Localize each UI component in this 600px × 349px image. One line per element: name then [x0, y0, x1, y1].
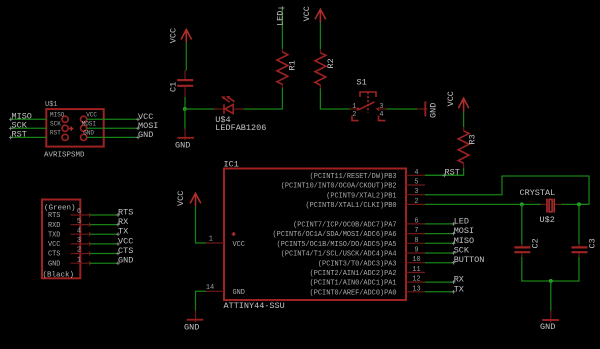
ground symbol right of S1 (rotated) [417, 101, 438, 118]
wire net GND [87, 130, 154, 140]
svg-text:13: 13 [412, 285, 420, 293]
svg-text:TX: TX [118, 227, 128, 237]
wire net RST at pin 4 [425, 174, 464, 176]
svg-text:1: 1 [77, 256, 81, 264]
wire left junction down to C2 [521, 204, 523, 244]
svg-text:U$1: U$1 [45, 101, 57, 109]
supply VCC symbol above R2 [302, 6, 326, 22]
IC1 pin 3 PB1 [326, 188, 425, 200]
svg-text:C2: C2 [530, 238, 540, 248]
svg-text:BUTTON: BUTTON [454, 255, 485, 265]
IC U1 (IC1) ATTINY44-SSU body [224, 159, 407, 311]
IC1 pin 12 PA1 [310, 276, 425, 288]
svg-text:VCC: VCC [233, 241, 245, 249]
svg-text:(PCINT2/AIN1/ADC2)PA2: (PCINT2/AIN1/ADC2)PA2 [310, 270, 397, 278]
IC1 pin 10 PA3 [318, 256, 425, 268]
wire net VCC [87, 112, 154, 122]
IC1 pin 1 VCC [206, 235, 245, 249]
U$1 pad VCC [81, 116, 87, 122]
svg-text:2: 2 [352, 111, 356, 119]
wire net RX at pin 12 [425, 275, 464, 285]
junction bottom rail [549, 279, 553, 283]
svg-text:(PCINT6/OC1A/SDA/MOSI/ADC6)PA6: (PCINT6/OC1A/SDA/MOSI/ADC6)PA6 [272, 231, 396, 239]
FTDI pin 3 VCC [48, 236, 133, 249]
svg-text:VCC: VCC [86, 112, 97, 119]
wire VCC to IC1 pin 1 [196, 206, 207, 243]
svg-text:8: 8 [414, 237, 418, 245]
FTDI pin 2 CTS [48, 246, 133, 259]
svg-text:VCC: VCC [446, 91, 456, 106]
svg-text:CTS: CTS [48, 251, 60, 259]
svg-text:(PCINT10/INT0/OC0A/CKOUT)PB2: (PCINT10/INT0/OC0A/CKOUT)PB2 [281, 183, 397, 191]
IC1 pin 11 PA2 [310, 266, 425, 278]
svg-text:4: 4 [379, 111, 383, 119]
svg-text:RTS: RTS [48, 212, 60, 220]
wire R3 to RST net [425, 168, 464, 178]
svg-text:MOSI: MOSI [454, 226, 474, 236]
svg-text:RX: RX [454, 275, 464, 285]
wire net BUTTON at pin 10 [425, 255, 484, 265]
svg-text:LED: LED [454, 216, 469, 226]
wire net LED at pin 6 [425, 216, 469, 226]
svg-text:LED: LED [275, 11, 285, 26]
svg-text:CTS: CTS [118, 246, 133, 256]
wire net SCK at pin 9 [425, 246, 470, 256]
svg-text:(PCINT9/XTAL2)PB1: (PCINT9/XTAL2)PB1 [326, 192, 396, 200]
supply VCC symbol above C1 [169, 28, 192, 43]
svg-text:U$2: U$2 [540, 215, 555, 225]
svg-text:GND: GND [118, 256, 133, 266]
FTDI pin 1 GND [48, 256, 133, 269]
supply VCC symbol at IC1 pin 1 [176, 191, 201, 206]
svg-text:7: 7 [414, 227, 418, 235]
IC1 pin 4 PB3 [310, 169, 425, 181]
wire net SCK [12, 120, 47, 130]
svg-text:(PCINT4/T1/SCL/USCK/ADC4)PA4: (PCINT4/T1/SCL/USCK/ADC4)PA4 [281, 251, 397, 259]
svg-text:AVRISPSMD: AVRISPSMD [44, 152, 85, 160]
svg-text:S1: S1 [357, 77, 367, 87]
svg-text:RST: RST [12, 129, 27, 139]
svg-text:VCC: VCC [169, 28, 179, 43]
wire junction to LED anode [185, 108, 215, 110]
svg-text:RX: RX [118, 217, 128, 227]
ground symbol below IC1 pin 14 [184, 311, 203, 333]
crystal U$2 [520, 188, 562, 225]
svg-text:RST: RST [50, 130, 61, 137]
IC1 pin 14 GND [206, 284, 245, 297]
IC1 pin 5 PB2 [281, 179, 425, 191]
svg-text:IC1: IC1 [224, 159, 239, 169]
svg-text:5: 5 [77, 218, 81, 226]
U$1 pad SCK [62, 125, 68, 131]
svg-text:SCK: SCK [454, 246, 470, 256]
svg-text:VCC: VCC [118, 236, 133, 246]
junction crystal left node [520, 202, 524, 206]
svg-text:4: 4 [77, 227, 81, 235]
svg-text:4: 4 [414, 169, 418, 177]
wire LED to R1 [244, 88, 283, 109]
wire S1 to ground [386, 108, 417, 110]
U$1 pad MISO [62, 116, 68, 122]
junction crystal right node [577, 202, 581, 206]
svg-text:GND: GND [138, 130, 153, 140]
svg-text:GND: GND [48, 260, 60, 268]
svg-text:GND: GND [184, 323, 199, 333]
net label origin crosses [9, 118, 456, 294]
wire pin 2 to crystal node [425, 203, 541, 205]
IC1 pin 8 PA5 [277, 237, 425, 249]
LED U$4 LEDFAB1206 [215, 96, 267, 133]
wire R1 to LED net label [275, 6, 285, 48]
svg-text:RST: RST [445, 168, 460, 178]
wire VCC to R2 [319, 23, 321, 50]
IC1 pin 9 PA4 [281, 247, 425, 259]
svg-text:1: 1 [209, 235, 213, 243]
wire junction down to ground [184, 109, 186, 129]
wire net MOSI at pin 7 [425, 226, 474, 236]
svg-text:(Black): (Black) [43, 271, 75, 279]
svg-text:TXD: TXD [48, 231, 60, 239]
IC1 pin 7 PA6 [272, 227, 425, 239]
U$1 pad MOSI [81, 125, 87, 131]
svg-text:C1: C1 [169, 82, 179, 92]
resistor R1 [277, 49, 297, 89]
svg-text:9: 9 [414, 247, 418, 255]
svg-text:5: 5 [414, 179, 418, 187]
svg-text:VCC: VCC [48, 241, 60, 249]
svg-text:R2: R2 [326, 58, 336, 68]
supply VCC symbol above R3 [446, 91, 469, 111]
FTDI pin 4 TXD [48, 227, 128, 240]
svg-text:GND: GND [175, 141, 190, 151]
svg-text:GND: GND [233, 289, 245, 297]
wire junction down to ground [550, 281, 552, 311]
svg-text:14: 14 [206, 284, 214, 292]
svg-text:R3: R3 [467, 134, 477, 144]
svg-text:GND: GND [540, 322, 555, 332]
wire IC1 pin 14 to ground [196, 291, 207, 311]
svg-text:ATTINY44-SSU: ATTINY44-SSU [224, 301, 285, 311]
wire C1 to junction [184, 97, 186, 109]
svg-text:TX: TX [454, 284, 464, 294]
svg-text:(PCINT11/RESET/DW)PB3: (PCINT11/RESET/DW)PB3 [310, 173, 397, 181]
svg-text:6: 6 [77, 208, 81, 216]
svg-text:12: 12 [412, 276, 420, 284]
svg-text:MISO: MISO [50, 112, 65, 119]
U$1 pad RST [62, 134, 68, 140]
capacitor C1 [169, 70, 194, 97]
wire VCC to R3 [463, 112, 465, 128]
svg-text:MOSI: MOSI [82, 121, 96, 128]
svg-text:(PCINT8/XTAL1/CLKI)PB0: (PCINT8/XTAL1/CLKI)PB0 [306, 202, 397, 210]
U$1 pad GND [81, 134, 87, 140]
wire net RST [12, 129, 47, 139]
resistor R3 [458, 127, 477, 168]
svg-text:1: 1 [352, 103, 356, 111]
svg-text:VCC: VCC [302, 6, 312, 21]
svg-text:(PCINT5/OC1B/MISO/DO/ADC5)PA5: (PCINT5/OC1B/MISO/DO/ADC5)PA5 [277, 241, 397, 249]
svg-text:11: 11 [412, 266, 420, 274]
svg-text:C3: C3 [588, 238, 598, 248]
wire net TX at pin 13 [425, 284, 464, 294]
svg-text:MISO: MISO [454, 236, 474, 246]
svg-text:(PCINT0/AREF/ADC0)PA0: (PCINT0/AREF/ADC0)PA0 [310, 289, 397, 297]
svg-text:R1: R1 [287, 60, 297, 70]
svg-text:2: 2 [414, 198, 418, 206]
svg-text:3: 3 [379, 103, 383, 111]
svg-text:6: 6 [414, 217, 418, 225]
FTDI pin 5 RXD [48, 217, 128, 230]
FTDI pin 6 RTS [48, 208, 133, 221]
wire right junction down to C3 [578, 204, 580, 244]
svg-text:(PCINT3/T0/ADC3)PA3: (PCINT3/T0/ADC3)PA3 [318, 260, 397, 268]
wire R2 to S1 pin1 [320, 89, 349, 110]
svg-text:GND: GND [83, 130, 94, 137]
wire pin 3 loop to crystal right [425, 176, 589, 204]
switch S1 [350, 77, 387, 120]
svg-text:RXD: RXD [48, 222, 60, 230]
svg-text:GND: GND [428, 103, 438, 118]
IC1 pin 13 PA0 [310, 285, 425, 297]
svg-text:(Green): (Green) [44, 204, 76, 212]
svg-text:(PCINT1/AIN0/ADC1)PA1: (PCINT1/AIN0/ADC1)PA1 [310, 280, 397, 288]
capacitor C2 [514, 238, 540, 257]
svg-text:VCC: VCC [176, 191, 186, 206]
svg-text:LEDFAB1206: LEDFAB1206 [215, 123, 266, 133]
svg-text:3: 3 [77, 237, 81, 245]
resistor R2 [315, 49, 336, 89]
ground symbol below crystal [540, 311, 559, 332]
svg-text:10: 10 [412, 256, 420, 264]
wire crystal to right junction [561, 203, 589, 205]
connector J1 FTDI body [42, 200, 80, 280]
wire net MISO at pin 8 [425, 236, 474, 246]
ground symbol below C1 [175, 129, 194, 151]
wire net MOSI [87, 121, 159, 131]
capacitor C3 [572, 238, 598, 257]
wire net MISO [12, 111, 47, 121]
IC1 pin 2 PB0 [306, 198, 425, 210]
wire VCC to C1 [185, 42, 187, 71]
svg-text:3: 3 [414, 188, 418, 196]
svg-text:RTS: RTS [118, 208, 133, 218]
junction at C1/LED node [183, 107, 187, 111]
svg-text:SCK: SCK [50, 121, 61, 128]
IC1 pin 6 PA7 [293, 217, 425, 229]
wire bottom rail C2 to C3 [522, 257, 579, 281]
svg-text:(PCINT7/ICP/OC0B/ADC7)PA7: (PCINT7/ICP/OC0B/ADC7)PA7 [293, 222, 396, 230]
svg-text:CRYSTAL: CRYSTAL [520, 188, 556, 198]
connector U$1 AVRISPSMD body [44, 101, 104, 160]
svg-text:2: 2 [77, 247, 81, 255]
